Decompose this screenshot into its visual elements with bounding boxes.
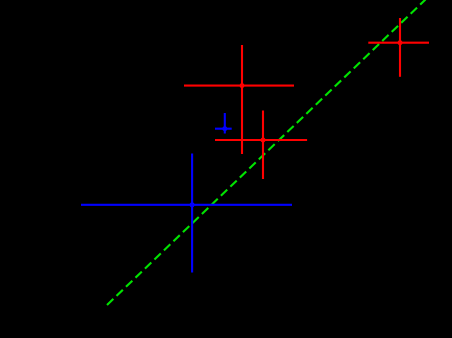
red errorbar cross C (top right): horizontal bar [368, 42, 429, 44]
red errorbar cross C: vertical bar [399, 18, 401, 77]
blue large errorbar cross: center marker [190, 202, 195, 207]
red errorbar cross A: vertical bar [241, 45, 243, 154]
blue large errorbar cross: vertical bar [191, 154, 193, 273]
red errorbar cross C: center marker [398, 40, 403, 45]
red errorbar cross A (upper middle): horizontal bar [184, 85, 294, 87]
green dashed y=x reference line [107, 0, 426, 305]
red errorbar cross A: center marker [240, 83, 245, 88]
red errorbar cross B: vertical bar [262, 111, 264, 180]
blue small errorbar cross: horizontal bar [215, 128, 232, 130]
blue small errorbar cross: vertical bar [224, 113, 226, 134]
blue large errorbar cross: horizontal bar [81, 204, 292, 206]
red errorbar cross B: center marker [261, 138, 266, 143]
blue small errorbar cross: center marker [222, 126, 227, 131]
red errorbar cross B (middle): horizontal bar [215, 139, 307, 141]
